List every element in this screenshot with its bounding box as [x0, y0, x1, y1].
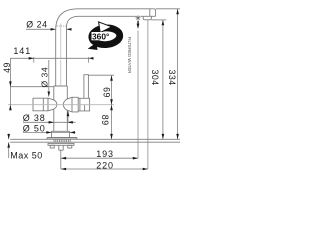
- 360 text patch: [92, 32, 112, 40]
- spout outer profile: [56, 9, 156, 86]
- right handle hub inner line: [79, 98, 81, 111]
- 141 left arrow: [29, 57, 34, 60]
- svg-text:Ø 50: Ø 50: [23, 123, 46, 133]
- centerline of handles: [8, 104, 114, 106]
- dia38 left arrow: [49, 121, 54, 124]
- svg-text:89: 89: [100, 115, 110, 126]
- right handle cone tip: [63, 97, 72, 112]
- body top extension line: [10, 86, 53, 88]
- body column: [54, 86, 68, 131]
- swirl head white arrow: [99, 22, 112, 33]
- under-counter plate: [48, 143, 74, 145]
- swirl tail arrow: [88, 43, 98, 50]
- thread hatch: [54, 140, 70, 143]
- 220 dim line: [61, 168, 148, 170]
- under-counter block right: [68, 145, 72, 148]
- dia34 up arrow: [67, 111, 70, 116]
- 360 swivel symbol: [88, 22, 121, 50]
- counter bottom line: [10, 141, 180, 143]
- spout inner bend: [67, 16, 137, 86]
- rod top extension line: [89, 74, 114, 76]
- 334 down arrow: [176, 134, 179, 139]
- 141 dim line: [10, 57, 88, 59]
- under-counter block left: [50, 145, 54, 148]
- max50 down arrow: [7, 134, 10, 139]
- 304 dim line: [162, 20, 164, 139]
- 220 extension line: [147, 20, 149, 169]
- svg-text:Max 50: Max 50: [10, 150, 43, 160]
- 334 dim line: [177, 9, 179, 139]
- max50 arrow stem: [8, 134, 10, 159]
- center extension below counter: [60, 151, 62, 170]
- max50 up arrow: [7, 142, 10, 147]
- dia24 left arrow: [51, 28, 56, 31]
- arrowheads black: [7, 9, 179, 170]
- 220 arrow: [143, 168, 148, 171]
- right handle hub notch: [84, 105, 86, 111]
- left handle divider: [42, 98, 44, 111]
- 141 right arrow: [88, 57, 93, 60]
- outlet bump under spout: [143, 16, 151, 20]
- svg-text:Ø 24: Ø 24: [26, 20, 47, 30]
- svg-text:FILTERED WATER: FILTERED WATER: [127, 37, 132, 74]
- base flange: [47, 138, 77, 140]
- 141 tick left: [33, 57, 35, 63]
- dia38 arrow: [68, 121, 73, 124]
- outlet bottom extension line: [152, 19, 167, 21]
- 220 left arrow: [61, 168, 66, 171]
- 193 dim line: [61, 157, 138, 159]
- 193 extension line: [137, 31, 139, 159]
- base cup: [52, 131, 70, 137]
- svg-text:334: 334: [167, 70, 177, 86]
- spout end cap line: [149, 9, 151, 16]
- svg-text:Ø 38: Ø 38: [23, 113, 46, 123]
- 304 up arrow: [162, 20, 165, 25]
- left handle knob: [33, 98, 48, 111]
- 193 left arrow: [61, 157, 66, 160]
- dia34 lower arrow stem: [67, 111, 69, 122]
- dia24 underline: [26, 28, 51, 30]
- svg-text:Ø 34: Ø 34: [39, 67, 49, 88]
- svg-text:193: 193: [96, 149, 114, 159]
- dia24 dotted line: [57, 25, 67, 27]
- 49 down arrow: [9, 81, 12, 86]
- 49 up arrow: [9, 105, 12, 110]
- flow down arrow: [137, 21, 140, 29]
- svg-text:49: 49: [2, 62, 12, 73]
- 69 down arrow: [110, 99, 113, 104]
- svg-text:69: 69: [102, 87, 112, 98]
- dia38 underline dim line: [23, 121, 76, 123]
- spout top extension line: [156, 8, 180, 10]
- right handle hub: [72, 97, 90, 112]
- dia24 dim line segments: [51, 28, 72, 30]
- dimension lines gray: [9, 9, 180, 169]
- dia50 underline dim line: [23, 131, 76, 133]
- svg-text:220: 220: [96, 160, 114, 170]
- right lever rod: [84, 75, 89, 99]
- 89 up arrow: [110, 105, 113, 110]
- dia34 down arrow: [48, 92, 51, 97]
- spout axis dashed line: [60, 24, 62, 87]
- svg-text:141: 141: [13, 46, 31, 56]
- 69 up arrow: [110, 76, 113, 81]
- 193 arrow: [133, 157, 138, 160]
- dia50 left arrow: [46, 131, 51, 134]
- 89 down arrow: [110, 134, 113, 139]
- 69-89 dim line: [111, 75, 113, 139]
- dia24 right arrow: [67, 28, 72, 31]
- dia34 leader line: [48, 60, 50, 97]
- 49 dim line: [9, 58, 11, 110]
- 141 tick right: [87, 57, 89, 63]
- 304 down arrow: [162, 134, 165, 139]
- svg-text:360°: 360°: [92, 32, 109, 42]
- 334 up arrow: [176, 9, 179, 14]
- under-counter stem: [59, 145, 63, 150]
- aerator starburst: [135, 15, 140, 20]
- spout underside segments: [140, 15, 155, 17]
- svg-text:304: 304: [150, 70, 160, 86]
- counter top line: [10, 138, 180, 140]
- left handle cone tip: [48, 98, 57, 111]
- dia50 arrow: [70, 131, 75, 134]
